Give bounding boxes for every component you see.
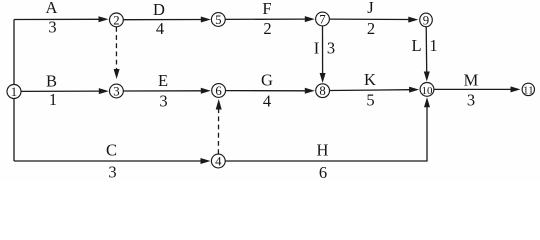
wire from node 1 up to top-left corner <box>13 20 15 85</box>
svg-text:9: 9 <box>423 13 429 27</box>
svg-text:I: I <box>314 38 320 57</box>
node 9 <box>420 13 433 27</box>
node 1 <box>7 85 21 99</box>
node 4 <box>211 154 225 168</box>
svg-text:H: H <box>317 140 329 159</box>
svg-text:J: J <box>367 0 374 17</box>
svg-text:2: 2 <box>367 19 375 38</box>
svg-text:6: 6 <box>319 163 327 181</box>
svg-text:11: 11 <box>523 85 534 97</box>
svg-text:M: M <box>464 70 479 89</box>
svg-text:A: A <box>46 0 58 17</box>
activity G arrow (6 to 8) <box>226 88 315 94</box>
dummy arrow (4 to 6, dashed) <box>216 99 222 154</box>
svg-text:3: 3 <box>113 85 119 99</box>
svg-text:L: L <box>411 36 421 55</box>
svg-text:3: 3 <box>159 91 167 110</box>
svg-text:F: F <box>262 0 271 18</box>
node 3 <box>110 84 124 98</box>
svg-text:6: 6 <box>215 84 222 98</box>
activity B arrow (1 to 3) <box>21 88 109 94</box>
activity F arrow (5 to 7) <box>225 16 315 22</box>
svg-text:D: D <box>153 0 165 19</box>
svg-text:G: G <box>261 70 273 89</box>
wire from node 1 down to bottom-left corner <box>13 99 15 162</box>
svg-text:5: 5 <box>366 90 374 109</box>
node 5 <box>211 13 225 27</box>
node 2 <box>110 13 124 27</box>
svg-text:3: 3 <box>327 38 335 57</box>
dummy arrow (2 to 3, dashed) <box>114 27 120 79</box>
svg-text:5: 5 <box>215 13 221 27</box>
activity M arrow (10 to 11) <box>434 86 521 92</box>
node 7 <box>316 12 330 26</box>
activity A arrow (1 to 2) <box>14 16 109 22</box>
activity H arrow (4 to 10) <box>225 97 430 161</box>
svg-text:2: 2 <box>113 13 119 27</box>
svg-text:10: 10 <box>422 85 434 97</box>
svg-text:3: 3 <box>48 18 56 37</box>
node 8 <box>316 84 330 98</box>
activity D arrow (2 to 5) <box>123 17 211 23</box>
svg-text:8: 8 <box>319 84 325 98</box>
activity I arrow (7 down to 8) <box>320 26 326 83</box>
svg-text:7: 7 <box>319 13 326 27</box>
svg-text:2: 2 <box>263 19 271 38</box>
svg-text:3: 3 <box>467 90 475 109</box>
node 6 <box>212 84 226 98</box>
node 11 <box>522 83 534 95</box>
svg-text:4: 4 <box>156 19 164 38</box>
svg-text:C: C <box>106 140 117 159</box>
node 10 <box>420 83 434 97</box>
svg-text:4: 4 <box>263 91 271 110</box>
activity J arrow (7 to 9) <box>329 17 418 23</box>
svg-text:1: 1 <box>11 85 17 99</box>
svg-text:K: K <box>364 70 376 89</box>
svg-text:3: 3 <box>108 162 116 181</box>
activity E arrow (3 to 6) <box>123 88 211 94</box>
svg-text:4: 4 <box>215 155 222 169</box>
svg-text:B: B <box>46 71 57 90</box>
svg-text:1: 1 <box>429 36 437 55</box>
svg-text:1: 1 <box>49 90 57 109</box>
activity K arrow (8 to 10) <box>330 87 420 93</box>
activity C arrow (1 to 4) <box>14 158 211 164</box>
activity L arrow (9 down to 10) <box>424 26 430 81</box>
svg-text:E: E <box>158 71 168 90</box>
